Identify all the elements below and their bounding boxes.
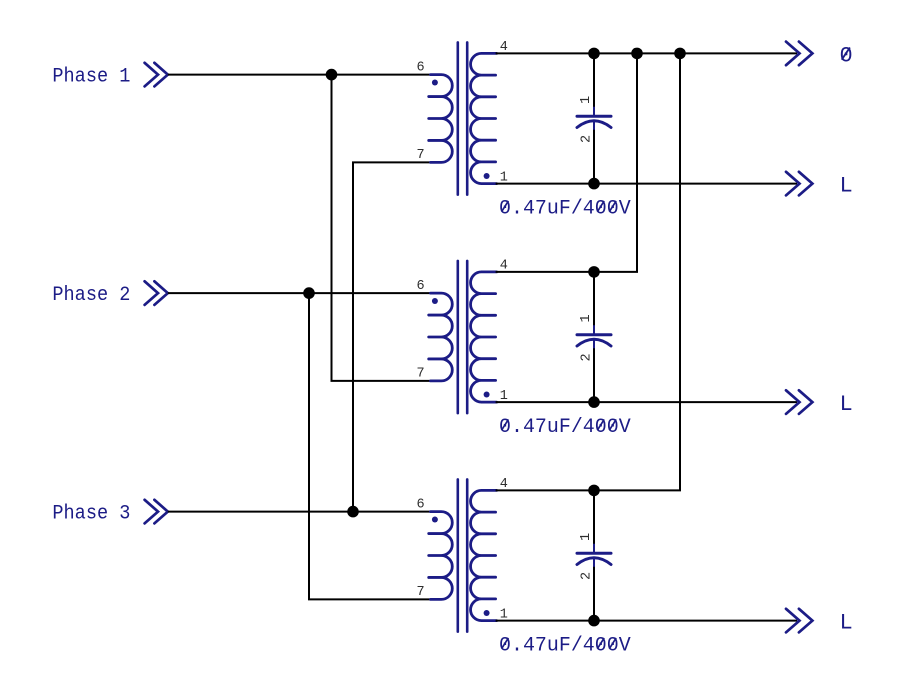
transformer TR3 secondary winding (pins 4-1): [471, 490, 497, 620]
wire: TR1 pin 7 horizontal to vertical C: [352, 161, 432, 163]
transformer TR2 primary winding (pins 6-7): [429, 293, 453, 381]
output flag chevrons (0 net, row 0): [786, 42, 812, 66]
transformer TR1 secondary polarity dot: [484, 173, 490, 179]
svg-text:1: 1: [579, 533, 594, 541]
junction dot top rail at TR3 feed: [674, 48, 686, 60]
svg-text:1: 1: [579, 314, 594, 322]
svg-text:7: 7: [416, 148, 424, 163]
output flag chevrons (L net, row 2): [786, 390, 812, 414]
input flag Phase 2 chevrons: [145, 281, 168, 305]
svg-text:6: 6: [416, 279, 424, 294]
wire: vertical from Phase 2 junction down to TR3 pin 7 level: [308, 293, 310, 599]
capacitor C2 curved plate: [577, 339, 611, 346]
wire: vertical from top rail down to TR2 pin 4 rail: [636, 53, 638, 272]
svg-text:Phase 2: Phase 2: [52, 284, 130, 307]
transformer TR2 secondary winding (pins 4-1): [471, 272, 497, 402]
capacitor C1 curved plate: [577, 121, 611, 128]
wire: Phase 3 input to transformer TR3 pin 6: [168, 511, 432, 513]
wire: TR1 pin 4 top rail to output 0: [496, 52, 797, 54]
transformer TR1 secondary winding (pins 4-1): [471, 53, 497, 183]
wire: horizontal into TR3 pin 7: [308, 598, 432, 600]
transformer TR3 core: [458, 479, 467, 631]
wire: vertical from top rail down to TR3 pin 4 rail: [679, 53, 681, 490]
junction dot C3 top on TR3 pin 4 rail: [588, 485, 600, 497]
wire: TR2 pin 1 to output L: [496, 401, 797, 403]
wire: capacitor C1 branch vertical: [593, 53, 595, 108]
svg-text:2: 2: [580, 353, 595, 361]
transformer TR2 secondary polarity dot: [484, 392, 490, 398]
junction dot C2 bottom on TR2 pin 1 wire: [588, 396, 600, 408]
junction dot on Phase 2 at vertical A: [303, 287, 315, 299]
transformer TR3 secondary polarity dot: [484, 610, 490, 616]
svg-text:2: 2: [580, 572, 595, 580]
junction dot top rail at TR2 feed: [631, 48, 643, 60]
capacitor C3 flat plate: [577, 552, 611, 555]
output flag 0 slash: [842, 48, 850, 60]
wire: capacitor C2 branch vertical: [593, 272, 595, 327]
wire: Phase 1 input to transformer TR1 pin 6: [168, 74, 432, 76]
svg-text:6: 6: [416, 497, 424, 512]
transformer TR3 primary winding (pins 6-7): [429, 512, 453, 600]
capacitor C2 leads: [593, 325, 595, 348]
wire: capacitor C3 branch vertical: [593, 490, 595, 545]
transformer TR1 core: [458, 42, 467, 194]
svg-text:Phase 1: Phase 1: [52, 66, 130, 89]
svg-text:L: L: [840, 611, 853, 636]
output flag chevrons (L net, row 1): [786, 172, 812, 196]
svg-text:7: 7: [416, 585, 424, 600]
transformer TR1 primary polarity dot: [432, 80, 438, 86]
transformer TR2 core: [458, 261, 467, 413]
svg-text:0: 0: [840, 44, 853, 69]
svg-text:L: L: [840, 392, 853, 417]
input flag Phase 3 chevrons: [145, 500, 168, 524]
svg-text:6: 6: [416, 60, 424, 75]
capacitor C1 flat plate: [577, 115, 611, 118]
wire: TR3 pin 1 to output L: [496, 620, 797, 622]
svg-text:2: 2: [580, 135, 595, 143]
wire: vertical from Phase 1 junction down to TR2 pin 7 level: [331, 75, 333, 381]
input flag Phase 1 chevrons: [145, 63, 168, 87]
wire: horizontal into TR2 pin 7: [331, 380, 432, 382]
svg-text:Phase 3: Phase 3: [52, 503, 130, 526]
wire: vertical C from TR1 pin 7 down to Phase 3 junction: [352, 162, 354, 511]
transformer TR1 primary winding (pins 6-7): [429, 75, 453, 163]
junction dot C1 bottom on TR1 pin 1 wire: [588, 178, 600, 190]
wire: TR3 pin 4 rail: [496, 489, 681, 491]
wire: TR1 pin 1 to output L: [496, 183, 797, 185]
junction dot C2 top on TR2 pin 4 rail: [588, 266, 600, 278]
capacitor C2 flat plate: [577, 333, 611, 336]
transformer TR3 primary polarity dot: [432, 517, 438, 523]
output flag chevrons (L net, row 3): [786, 609, 812, 633]
capacitor C1 leads: [593, 107, 595, 130]
capacitor C3 leads: [593, 544, 595, 567]
transformer TR2 primary polarity dot: [432, 298, 438, 304]
wire: TR2 pin 4 rail: [496, 271, 638, 273]
svg-text:1: 1: [579, 96, 594, 104]
junction dot on Phase 1 at vertical B: [326, 69, 338, 81]
capacitor C3 curved plate: [577, 558, 611, 565]
svg-text:7: 7: [416, 366, 424, 381]
junction dot C3 bottom on TR3 pin 1 wire: [588, 615, 600, 627]
junction dot top rail at capacitor C1: [588, 48, 600, 60]
junction dot on Phase 3 at vertical C: [347, 506, 359, 518]
svg-text:L: L: [840, 174, 853, 199]
wire: Phase 2 input to transformer TR2 pin 6: [168, 292, 432, 294]
